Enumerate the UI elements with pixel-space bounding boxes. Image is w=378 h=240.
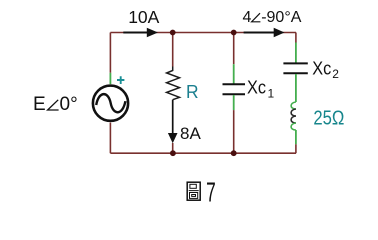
wire Xc1 green upper [233, 64, 235, 83]
inductor coil 25 ohm [291, 102, 296, 109]
svg-text:8A: 8A [180, 124, 201, 143]
junction dot bottom Xc1 [231, 150, 237, 156]
svg-text:2: 2 [332, 67, 339, 81]
svg-text:R: R [186, 81, 199, 102]
angle symbol of E [48, 100, 59, 110]
wire left branch lower [109, 123, 111, 154]
svg-text:E: E [33, 94, 46, 115]
wire bottom rail [110, 152, 296, 154]
svg-text:25Ω: 25Ω [313, 107, 344, 129]
svg-text:1: 1 [268, 86, 275, 100]
svg-text:7: 7 [206, 176, 216, 207]
junction dot top R [170, 30, 176, 36]
svg-text:4: 4 [243, 9, 252, 26]
wire top rail [110, 32, 296, 34]
wire right branch green upper [295, 43, 297, 63]
wire right branch green mid [295, 74, 297, 102]
junction dot bottom R [170, 150, 176, 156]
svg-text:0°: 0° [60, 94, 78, 115]
capacitor Xc2 [283, 63, 307, 73]
current arrow 8A [172, 100, 174, 134]
wire right branch lower [295, 144, 297, 153]
junction dot top Xc1 [231, 30, 237, 36]
svg-text:-90°A: -90°A [261, 9, 302, 26]
wire Xc1 branch upper [233, 33, 235, 65]
source sine wave [96, 94, 125, 112]
svg-text:Xc: Xc [247, 77, 266, 97]
wire right branch green lower [295, 130, 297, 144]
capacitor Xc1 [223, 84, 246, 94]
wire left branch green segment [109, 73, 111, 84]
wire R branch upper [172, 33, 174, 67]
current arrow 10A [123, 32, 147, 34]
angle symbol of 4A label [252, 13, 261, 22]
wire left branch upper [109, 33, 111, 73]
wire Xc1 green lower [233, 95, 235, 110]
wire Xc1 lower [233, 110, 235, 153]
caption glyph tu (figure) [187, 182, 200, 200]
source V1 plus sign [117, 76, 124, 84]
op source E circle [93, 86, 128, 121]
resistor R [167, 67, 180, 100]
current arrow 4A [244, 32, 275, 34]
svg-text:10A: 10A [128, 7, 159, 27]
svg-text:Xc: Xc [312, 58, 331, 78]
wire R branch lower [172, 143, 174, 153]
wire right branch top corner [295, 33, 297, 43]
